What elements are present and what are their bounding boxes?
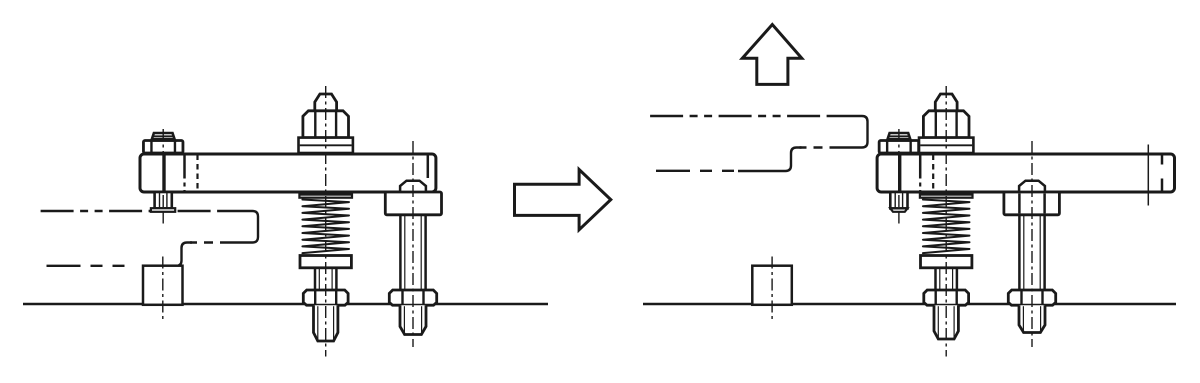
machine table baseline (23, 303, 548, 305)
right stud centerline (412, 141, 414, 347)
right stud end below base (400, 305, 426, 334)
spherical washer under nut (299, 138, 353, 153)
compression spring (302, 200, 349, 254)
clamp screw shank below bar (890, 192, 907, 208)
right stud shank (399, 215, 402, 291)
bar slot right end edge (427, 156, 430, 179)
key centerline (771, 257, 773, 320)
center stud shank (314, 268, 317, 291)
bar slot left end hidden edge (196, 155, 198, 193)
spherical washer under nut (919, 138, 973, 153)
right stud lower hex nut (1008, 290, 1055, 305)
screw centerline (162, 129, 164, 208)
right stud end inside bar slot (400, 181, 426, 193)
center stud shank (934, 268, 937, 291)
right stud end below base (1019, 305, 1045, 332)
spring washer (921, 256, 972, 268)
right stud shank (1018, 215, 1021, 291)
center stud end below base (934, 305, 958, 339)
bar slot left end edge (919, 154, 922, 179)
clamp bar (877, 154, 1174, 192)
right stud end inside bar slot (1019, 181, 1045, 193)
workpiece phantom outline - middle ledge dashes (800, 146, 841, 148)
hex nut on top (303, 111, 349, 138)
clamp screw swivel foot (890, 208, 907, 211)
stud end above nut (315, 94, 337, 112)
workpiece phantom outline - bottom edge dashes (47, 265, 132, 267)
key centerline (162, 257, 164, 320)
center stud centerline (945, 86, 947, 357)
clamp screw hex head (143, 141, 183, 154)
center stud centerline (325, 86, 327, 357)
screw centerline (898, 129, 900, 208)
bar slot left end edge (183, 154, 186, 179)
workpiece phantom outline - top edge (41, 210, 225, 212)
workpiece phantom outline - top edge (650, 115, 834, 117)
bar right hole centerline (1147, 145, 1149, 206)
locating key block (143, 266, 183, 305)
workpiece phantom outline - lower step (solid run) (174, 243, 193, 267)
center stud lower hex nut (924, 290, 969, 305)
stud end above nut (935, 94, 957, 112)
right stud support bushing (1004, 192, 1060, 215)
LEFT FIGURE: clamped state (23, 86, 548, 357)
lift-off arrow (742, 25, 802, 85)
screw body visible in slot (898, 154, 901, 192)
workpiece phantom outline - right step (solid run) (225, 211, 258, 243)
machine table baseline (643, 303, 1176, 305)
clamp screw hex head (879, 141, 919, 154)
right stud lower hex nut (389, 290, 436, 305)
spring seat washer (920, 195, 973, 198)
clamp screw head chamfered cap (151, 133, 175, 141)
workpiece phantom outline - middle ledge dashes (190, 241, 231, 243)
compression spring (923, 200, 970, 254)
workpiece phantom outline - lower step (solid run) (738, 148, 802, 172)
spring washer (300, 256, 351, 268)
bar slot left end hidden edge (932, 155, 934, 193)
locating key block (752, 266, 792, 305)
bar slot right end edge (1161, 156, 1164, 165)
right stud support bushing (385, 192, 441, 215)
clamp screw shank below bar (155, 192, 172, 208)
RIGHT FIGURE: released state (643, 86, 1176, 357)
workpiece phantom outline - right step (solid run) (835, 116, 868, 148)
center stud lower hex nut (303, 290, 348, 305)
screw body visible in slot (162, 154, 165, 192)
spring seat washer (299, 195, 352, 198)
hex nut on top (923, 111, 969, 138)
clamp screw swivel foot (151, 208, 175, 212)
clamp screw head chamfered cap (887, 133, 911, 141)
right stud centerline (1031, 141, 1033, 347)
center stud end below base (314, 305, 338, 341)
clamp bar (140, 154, 436, 192)
workpiece phantom outline - bottom edge dashes (656, 170, 738, 172)
slide direction arrow (515, 170, 611, 230)
